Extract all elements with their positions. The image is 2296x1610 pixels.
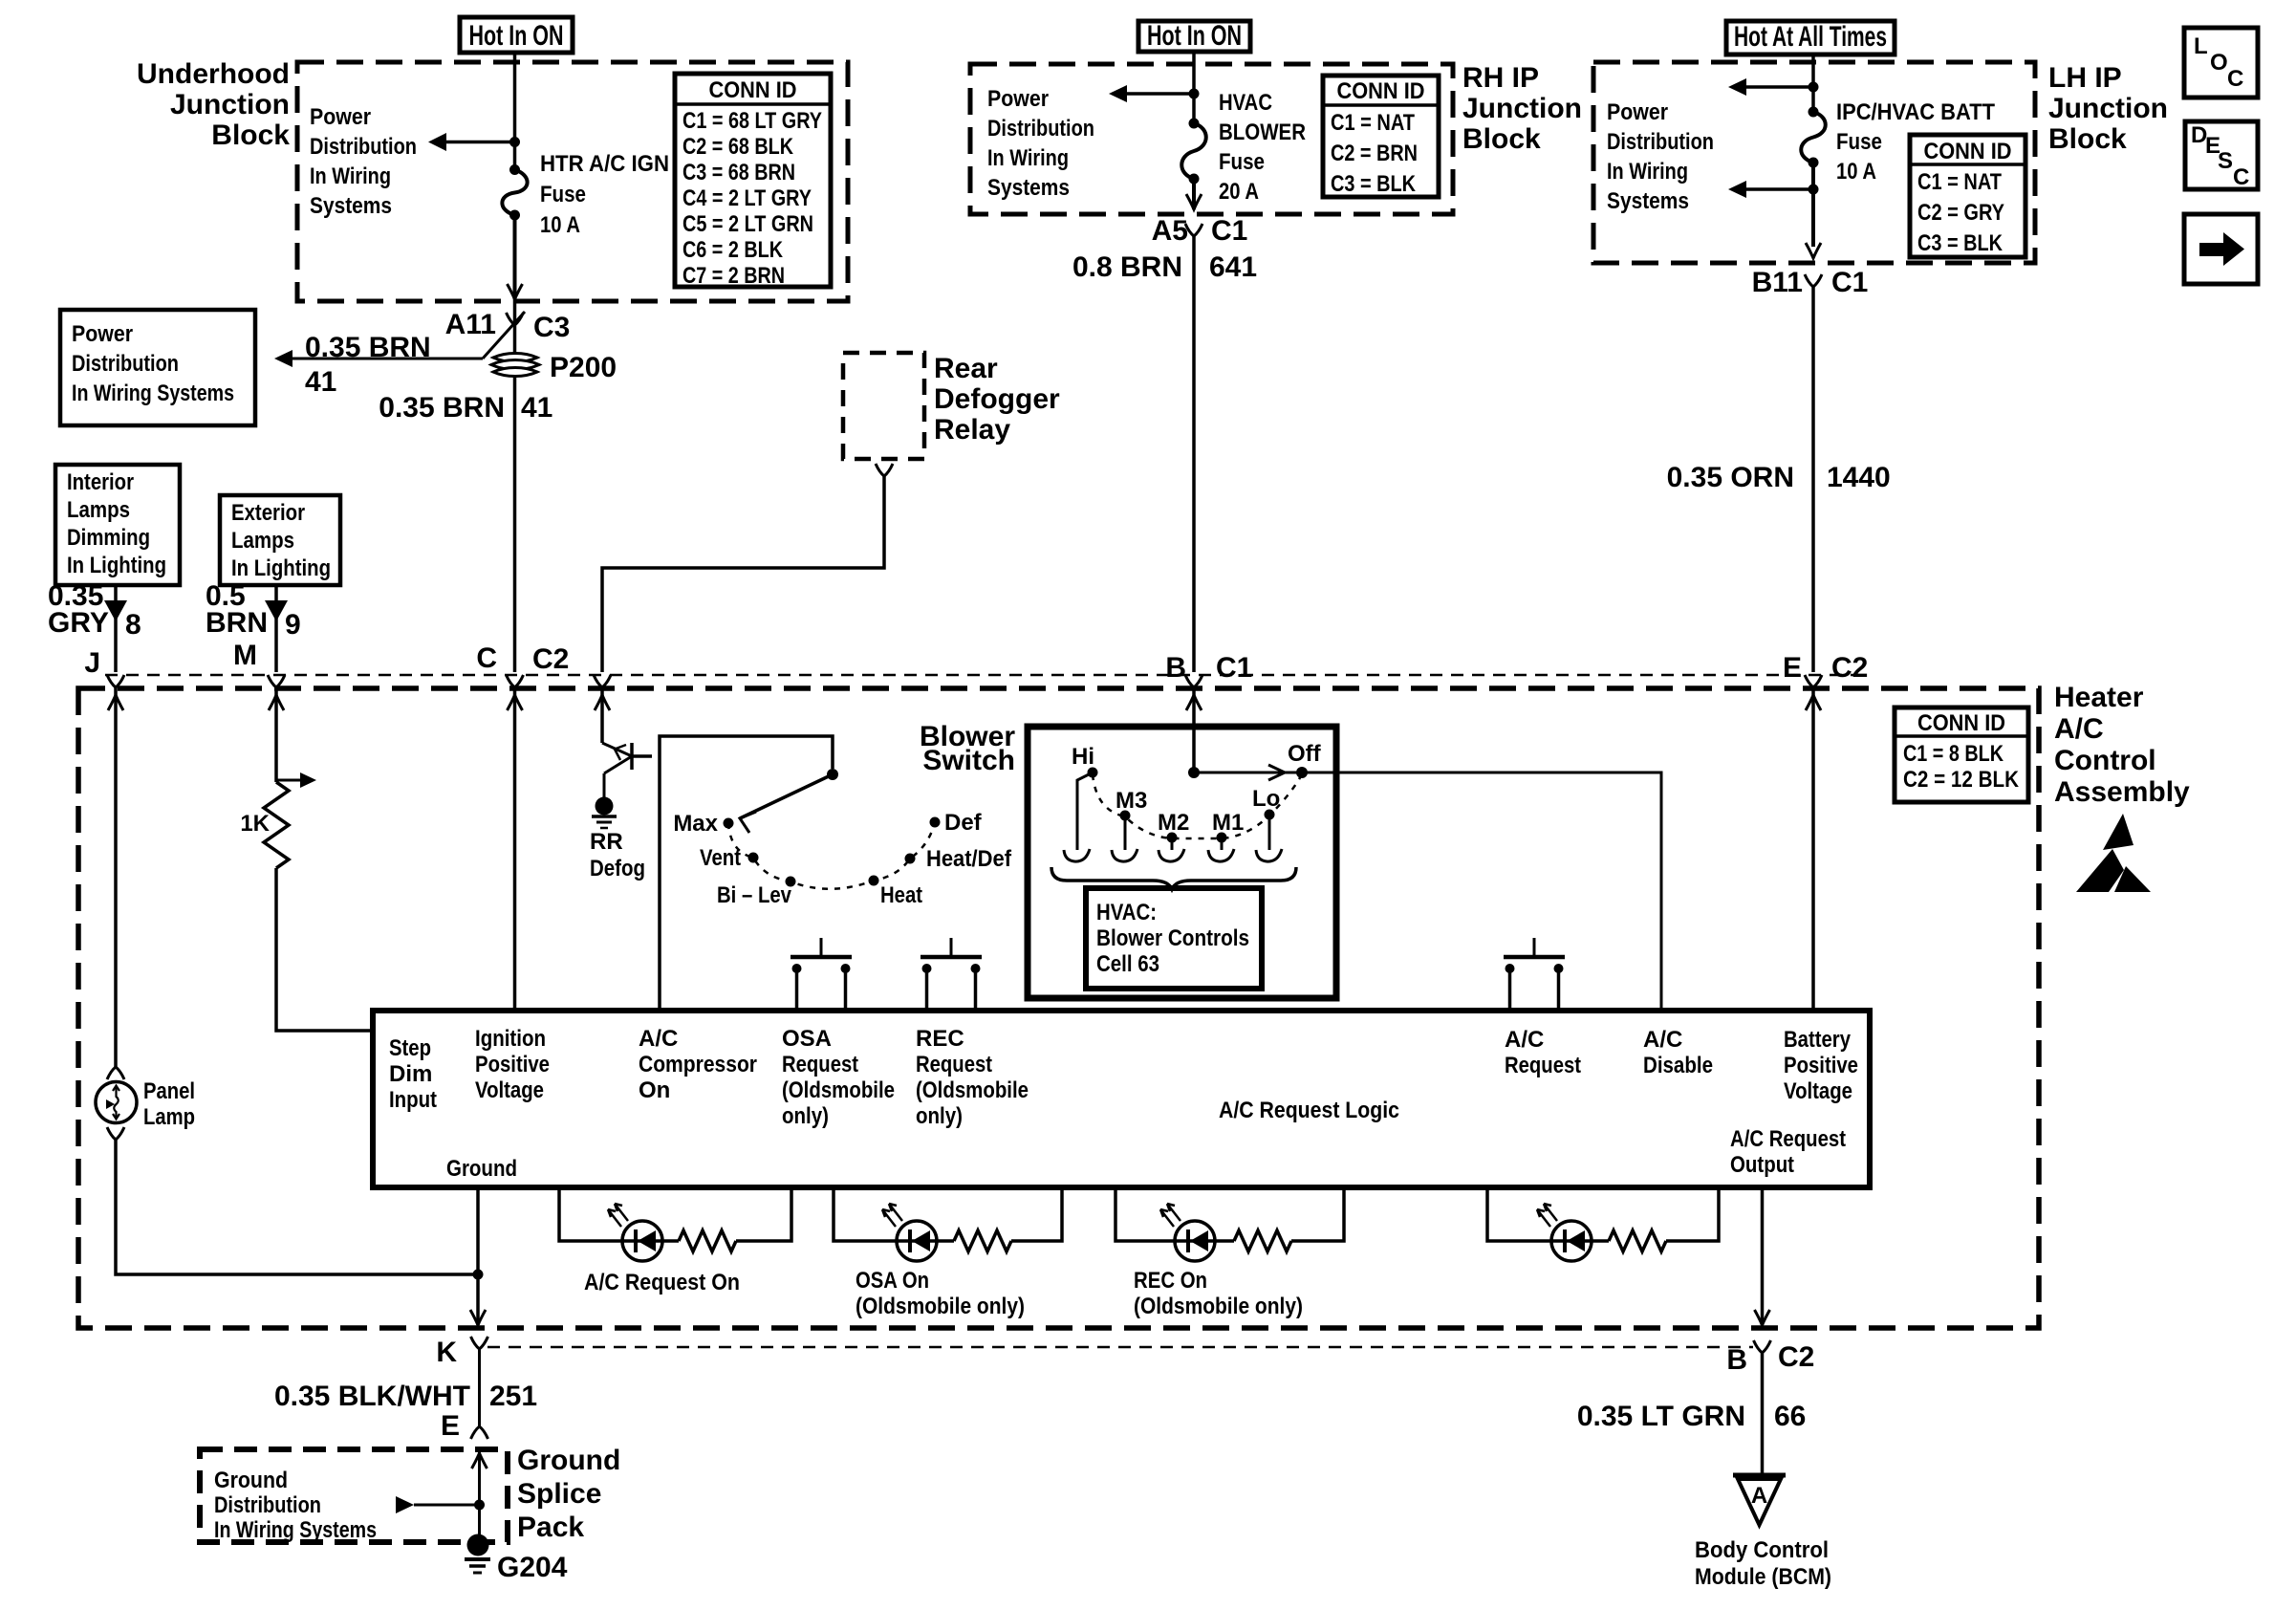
connector boundary thin dashed line (top) xyxy=(105,674,1854,677)
wire 0.35 BRN 41 branch to power distribution xyxy=(292,358,483,360)
svg-text:(Oldsmobile only): (Oldsmobile only) xyxy=(856,1294,1025,1319)
node: inline connector above panel lamp xyxy=(107,1067,124,1079)
svg-text:(Oldsmobile: (Oldsmobile xyxy=(916,1077,1029,1103)
node: inline connector below panel lamp xyxy=(107,1127,124,1140)
svg-text:C2 = GRY: C2 = GRY xyxy=(1917,200,2004,226)
wire through A11/C3 connector to P200 xyxy=(513,299,517,355)
wire C2 inside assembly with arrow (to RR Defog) xyxy=(600,687,604,743)
svg-text:1440: 1440 xyxy=(1827,462,1891,493)
CONN ID table (heater assembly) xyxy=(1895,707,2028,802)
svg-text:Off: Off xyxy=(1288,741,1322,767)
svg-text:Exterior: Exterior xyxy=(231,500,305,526)
svg-text:9: 9 xyxy=(285,609,301,641)
svg-text:On: On xyxy=(639,1077,670,1103)
label: Heater A/C Control Assembly xyxy=(2054,682,2190,808)
svg-text:C2: C2 xyxy=(1778,1341,1814,1373)
svg-text:Output: Output xyxy=(1730,1152,1794,1178)
svg-text:Heat/Def: Heat/Def xyxy=(926,846,1012,872)
svg-text:Distribution: Distribution xyxy=(72,351,179,377)
svg-text:Lamps: Lamps xyxy=(231,528,294,554)
pin label: A/C Disable xyxy=(1643,1027,1713,1078)
svg-text:Relay: Relay xyxy=(934,414,1010,446)
LH IP junction block dashed box xyxy=(1593,62,2035,263)
wire J: interior lamps down to assembly xyxy=(114,585,118,672)
label: Power Distribution In Wiring Systems (LH) xyxy=(1607,99,1714,214)
svg-text:S: S xyxy=(2218,148,2233,174)
node Hi contact xyxy=(1064,744,1098,861)
node A11/C3 inline connector xyxy=(445,309,571,359)
svg-text:Junction: Junction xyxy=(2048,93,2168,124)
svg-text:Def: Def xyxy=(944,810,983,836)
svg-text:Fuse: Fuse xyxy=(1836,129,1882,155)
power label box "Hot At All Times" xyxy=(1726,21,1895,54)
wire: relay to C2 pin xyxy=(602,476,884,672)
wire: Hot In ON down xyxy=(1192,52,1196,123)
wire: down to heater assembly B C1 xyxy=(1192,236,1196,672)
svg-text:Power: Power xyxy=(72,321,133,347)
wire: blower common to Off and onward to A/C disable xyxy=(1194,772,1661,1011)
svg-text:Positive: Positive xyxy=(1784,1053,1858,1078)
node: connector fork B/C2 xyxy=(1754,1340,1771,1353)
svg-text:Dimming: Dimming xyxy=(67,525,150,551)
pin label: A/C Request Output xyxy=(1730,1126,1846,1178)
svg-text:C2 = 12 BLK: C2 = 12 BLK xyxy=(1903,767,2020,793)
svg-text:Junction: Junction xyxy=(170,89,290,120)
svg-text:0.8 BRN: 0.8 BRN xyxy=(1072,251,1182,283)
node: connector fork E/C2 at boundary xyxy=(1805,675,1822,687)
exterior lamps box xyxy=(220,495,340,585)
wire J inside assembly with arrow xyxy=(114,687,118,1068)
svg-text:In Wiring: In Wiring xyxy=(987,145,1069,171)
svg-text:Defog: Defog xyxy=(590,856,645,881)
label: Power Distribution In Wiring Systems (underhood) xyxy=(310,104,417,219)
svg-text:0.35 BLK/WHT: 0.35 BLK/WHT xyxy=(274,1381,470,1412)
push button OSA request xyxy=(791,938,852,1011)
svg-text:Fuse: Fuse xyxy=(1219,149,1265,175)
svg-text:Voltage: Voltage xyxy=(1784,1078,1852,1104)
svg-text:Block: Block xyxy=(2048,123,2127,155)
svg-text:Compressor: Compressor xyxy=(639,1052,757,1077)
svg-text:K: K xyxy=(436,1337,457,1368)
svg-text:Underhood: Underhood xyxy=(137,58,290,90)
LED circuit OSA On xyxy=(834,1187,1062,1319)
svg-text:Request: Request xyxy=(916,1052,992,1077)
svg-text:Distribution: Distribution xyxy=(987,116,1094,141)
ESD sensitive device symbol xyxy=(2076,814,2151,892)
node: junction with panel lamp return xyxy=(473,1270,484,1280)
node: junction dot (top) xyxy=(1809,82,1819,93)
svg-text:66: 66 xyxy=(1774,1401,1806,1432)
wire: fuse to lower branch xyxy=(1811,163,1815,247)
underhood junction block dashed box xyxy=(297,62,848,301)
wire: Hot In ON down to fuse xyxy=(513,53,517,169)
power distribution box (solid) xyxy=(60,310,255,425)
svg-text:C3 = 68 BRN: C3 = 68 BRN xyxy=(682,160,795,185)
wire: ground pin down through assembly edge xyxy=(476,1187,480,1325)
node M3 contact xyxy=(1112,788,1147,861)
svg-text:C2 = 68 BLK: C2 = 68 BLK xyxy=(682,134,794,160)
svg-text:C1: C1 xyxy=(1831,267,1868,298)
ground splice pack dashed box xyxy=(200,1449,508,1542)
brace grouping blower contacts xyxy=(1051,867,1296,889)
svg-text:Ignition: Ignition xyxy=(475,1026,546,1052)
svg-text:C3 = BLK: C3 = BLK xyxy=(1331,171,1417,197)
svg-text:C1 = 8 BLK: C1 = 8 BLK xyxy=(1903,741,2004,767)
label: HVAC BLOWER Fuse 20 A xyxy=(1219,90,1306,205)
svg-text:Panel: Panel xyxy=(143,1078,195,1104)
node: connector fork J at boundary xyxy=(107,675,124,687)
label: Underhood Junction Block xyxy=(137,58,290,151)
svg-text:Block: Block xyxy=(1462,123,1541,155)
resistor 1K on wire M xyxy=(240,772,316,868)
label: Body Control Module (BCM) xyxy=(1695,1537,1831,1590)
svg-text:Splice: Splice xyxy=(517,1478,601,1510)
svg-text:Hot At All Times: Hot At All Times xyxy=(1734,21,1887,53)
svg-text:A/C Request On: A/C Request On xyxy=(584,1270,740,1295)
svg-text:In Lighting: In Lighting xyxy=(67,553,166,578)
node A5/C1 connector xyxy=(1152,215,1248,247)
svg-text:BRN: BRN xyxy=(206,607,268,639)
wire: panel lamp down and right to ground trace xyxy=(116,1140,478,1274)
svg-text:only): only) xyxy=(916,1103,963,1129)
svg-text:Power: Power xyxy=(310,104,371,130)
label: Power Distribution In Wiring Systems (RH) xyxy=(987,86,1094,201)
label: RH IP Junction Block xyxy=(1462,62,1582,155)
svg-text:J: J xyxy=(84,647,100,679)
svg-text:Module (BCM): Module (BCM) xyxy=(1695,1564,1831,1590)
svg-text:C1: C1 xyxy=(1211,215,1247,247)
wire: splice vertical with up arrow xyxy=(478,1449,481,1541)
svg-text:10 A: 10 A xyxy=(1836,159,1876,185)
svg-text:HTR A/C IGN: HTR A/C IGN xyxy=(540,151,669,177)
svg-text:Hot In ON: Hot In ON xyxy=(469,20,564,52)
node Off contact xyxy=(1288,741,1322,778)
label: IPC/HVAC BATT Fuse 10 A xyxy=(1836,99,1995,185)
wire E C2 inside assembly with arrow (to battery positive voltage) xyxy=(1811,687,1815,1011)
HVAC blower controls reference box xyxy=(1086,888,1262,989)
pin label: Step Dim Input xyxy=(389,1035,437,1113)
svg-text:Lamp: Lamp xyxy=(143,1104,195,1130)
wire: down to BCM triangle xyxy=(1761,1353,1765,1473)
pin label: Ignition Positive Voltage xyxy=(475,1026,550,1103)
svg-text:1K: 1K xyxy=(240,811,270,837)
off-page connector A (BCM) xyxy=(1733,1475,1786,1525)
svg-text:Defogger: Defogger xyxy=(934,383,1060,415)
svg-text:C2 = BRN: C2 = BRN xyxy=(1331,141,1418,166)
panel lamp xyxy=(96,1078,195,1130)
wire: fuse down to box edge with arrow xyxy=(513,215,517,299)
svg-text:M3: M3 xyxy=(1116,788,1147,814)
svg-text:RR: RR xyxy=(590,829,623,855)
svg-text:A/C: A/C xyxy=(639,1026,678,1052)
label: Rear Defogger Relay xyxy=(934,353,1060,446)
svg-text:O: O xyxy=(2210,50,2228,76)
wire: Hot At All Times down xyxy=(1811,54,1815,112)
svg-text:Distribution: Distribution xyxy=(310,134,417,160)
fuse IPC/HVAC BATT 10A xyxy=(1801,107,1826,168)
mode switch contacts and dashed arc xyxy=(724,817,941,889)
LED circuit A/C Request On xyxy=(559,1187,791,1295)
svg-text:Rear: Rear xyxy=(934,353,998,384)
svg-text:Junction: Junction xyxy=(1462,93,1582,124)
svg-text:41: 41 xyxy=(521,392,552,424)
svg-text:M: M xyxy=(233,640,257,671)
svg-text:C5 = 2 LT GRN: C5 = 2 LT GRN xyxy=(682,211,813,237)
svg-text:A/C Request Logic: A/C Request Logic xyxy=(1219,1098,1399,1123)
splice P200 xyxy=(491,352,617,383)
heater a/c control assembly dashed box xyxy=(78,688,2039,1328)
node B11/C1 connector xyxy=(1752,267,1869,298)
svg-text:Hi: Hi xyxy=(1072,744,1094,770)
svg-text:REC: REC xyxy=(916,1026,964,1052)
svg-text:BLOWER: BLOWER xyxy=(1219,120,1306,145)
rotary mode switch blade arrow to Max xyxy=(740,774,833,833)
svg-text:Body Control: Body Control xyxy=(1695,1537,1829,1563)
svg-text:C2: C2 xyxy=(1831,652,1868,684)
wire: P200 down to C connector xyxy=(513,377,517,672)
LOC legend box xyxy=(2184,28,2258,98)
svg-text:Dim: Dim xyxy=(389,1061,432,1087)
svg-text:Fuse: Fuse xyxy=(540,182,586,207)
transistor-style switch RR Defog xyxy=(602,743,652,798)
svg-text:Input: Input xyxy=(389,1087,437,1113)
wire M inside assembly with arrow xyxy=(274,687,278,782)
svg-text:B: B xyxy=(1726,1344,1747,1376)
push button REC request xyxy=(921,938,982,1011)
svg-text:C1 = NAT: C1 = NAT xyxy=(1917,169,2002,195)
fuse HVAC BLOWER 20A xyxy=(1181,119,1206,185)
DESC legend box xyxy=(2185,121,2258,190)
svg-text:B11: B11 xyxy=(1752,267,1803,298)
svg-text:10 A: 10 A xyxy=(540,212,580,238)
svg-text:0.35 BRN: 0.35 BRN xyxy=(305,332,431,363)
CONN ID table (RH) xyxy=(1323,76,1439,197)
power label box "Hot In ON" (left) xyxy=(460,17,573,53)
svg-text:(Oldsmobile only): (Oldsmobile only) xyxy=(1134,1294,1303,1319)
svg-text:RH IP: RH IP xyxy=(1462,62,1539,94)
svg-text:G204: G204 xyxy=(497,1552,568,1583)
blower switch common node xyxy=(1188,767,1200,778)
svg-text:L: L xyxy=(2194,33,2208,59)
svg-text:Max: Max xyxy=(673,811,718,837)
LED circuit REC On xyxy=(1116,1187,1344,1319)
CONN ID table (LH) xyxy=(1910,135,2025,257)
wire: fuse down through box edge xyxy=(1192,179,1196,209)
ground at RR Defog xyxy=(590,797,645,882)
power label box "Hot In ON" (middle) xyxy=(1138,20,1250,52)
svg-text:E: E xyxy=(1783,652,1802,684)
wire: A/C compressor on pin up to mode switch pivot xyxy=(660,736,833,1011)
pin label: A/C Request xyxy=(1505,1027,1581,1078)
label: Ground Splice Pack xyxy=(517,1445,620,1543)
svg-text:Lamps: Lamps xyxy=(67,497,130,523)
svg-text:Pack: Pack xyxy=(517,1512,584,1543)
svg-text:C3 = BLK: C3 = BLK xyxy=(1917,230,2004,256)
svg-text:Positive: Positive xyxy=(475,1052,550,1077)
svg-text:In Wiring: In Wiring xyxy=(1607,159,1688,185)
svg-text:OSA: OSA xyxy=(782,1026,832,1052)
connector boundary thin dashed line (bottom) xyxy=(487,1346,1753,1349)
svg-text:Interior: Interior xyxy=(67,469,134,495)
svg-text:HVAC: HVAC xyxy=(1219,90,1272,116)
push button A/C request xyxy=(1504,938,1565,1011)
label: Ground Distribution In Wiring Systems xyxy=(214,1468,377,1543)
svg-text:Ground: Ground xyxy=(517,1445,620,1476)
svg-text:A/C Request: A/C Request xyxy=(1730,1126,1846,1152)
svg-text:CONN ID: CONN ID xyxy=(709,77,797,103)
svg-text:Cell 63: Cell 63 xyxy=(1096,951,1159,977)
wire: output pin down through assembly edge xyxy=(1761,1187,1765,1325)
wire: arrow down at box edge xyxy=(1806,243,1821,258)
svg-text:only): only) xyxy=(782,1103,829,1129)
svg-text:P200: P200 xyxy=(550,352,617,383)
svg-text:Request: Request xyxy=(1505,1053,1581,1078)
svg-text:CONN ID: CONN ID xyxy=(1337,78,1425,104)
module box (A/C request logic) xyxy=(373,1011,1870,1187)
svg-text:C: C xyxy=(2227,66,2243,92)
svg-text:Block: Block xyxy=(211,120,290,151)
svg-text:251: 251 xyxy=(489,1381,537,1412)
svg-text:Switch: Switch xyxy=(922,745,1015,776)
wire: branch arrow in splice pack xyxy=(414,1504,480,1507)
wire M: exterior lamps down to assembly xyxy=(274,585,278,672)
svg-text:B: B xyxy=(1165,652,1186,684)
svg-text:C4 = 2 LT GRY: C4 = 2 LT GRY xyxy=(682,185,812,211)
node M2 contact xyxy=(1158,810,1189,861)
svg-text:C6 = 2 BLK: C6 = 2 BLK xyxy=(682,237,784,263)
svg-text:E: E xyxy=(441,1410,460,1442)
svg-text:C: C xyxy=(476,642,497,674)
svg-text:Hot In ON: Hot In ON xyxy=(1147,20,1242,52)
node: junction dot (bottom) xyxy=(1809,185,1819,195)
svg-text:C2: C2 xyxy=(532,643,569,675)
wire: branch arrow left xyxy=(1126,92,1194,96)
svg-text:In Lighting: In Lighting xyxy=(231,555,331,581)
node M1 contact xyxy=(1208,810,1244,861)
svg-text:C1 = 68 LT GRY: C1 = 68 LT GRY xyxy=(682,108,822,134)
svg-text:8: 8 xyxy=(125,609,141,641)
svg-text:Power: Power xyxy=(987,86,1049,112)
svg-text:Distribution: Distribution xyxy=(1607,129,1714,155)
rear defogger relay dashed box xyxy=(843,353,924,459)
pin label: OSA Request (Oldsmobile only) xyxy=(782,1026,895,1129)
pin label: A/C Compressor On xyxy=(639,1026,757,1103)
pin label: REC Request (Oldsmobile only) xyxy=(916,1026,1029,1129)
svg-text:Heat: Heat xyxy=(880,882,922,908)
svg-text:HVAC:: HVAC: xyxy=(1096,900,1157,925)
svg-text:0.35 LT GRN: 0.35 LT GRN xyxy=(1577,1401,1745,1432)
svg-text:Systems: Systems xyxy=(987,175,1070,201)
node: splice junction dot xyxy=(474,1500,485,1511)
ground G204 xyxy=(465,1534,568,1584)
svg-text:Step: Step xyxy=(389,1035,431,1061)
svg-text:REC On: REC On xyxy=(1134,1268,1207,1294)
svg-text:In Wiring: In Wiring xyxy=(310,163,391,189)
wire C inside assembly with arrow (to Ignition Positive Voltage) xyxy=(513,687,517,1011)
svg-text:41: 41 xyxy=(305,366,336,398)
blower switch wiper arrow toward Off xyxy=(1268,765,1285,780)
node: connector fork M at boundary xyxy=(268,675,285,687)
CONN ID table (underhood) xyxy=(675,74,831,289)
svg-text:Request: Request xyxy=(782,1052,858,1077)
wire: K to ground splice pack xyxy=(478,1349,481,1426)
svg-text:Battery: Battery xyxy=(1784,1027,1852,1053)
svg-text:C: C xyxy=(2233,164,2249,190)
svg-text:C1 = NAT: C1 = NAT xyxy=(1331,110,1415,136)
wire: branch to power distribution with arrow xyxy=(445,141,515,144)
svg-text:641: 641 xyxy=(1209,251,1257,283)
arrow legend box xyxy=(2184,214,2258,284)
LED circuit A/C request (unlabeled) xyxy=(1487,1187,1719,1261)
wire: branch arrow left (top) xyxy=(1745,85,1813,89)
svg-text:CONN ID: CONN ID xyxy=(1924,139,2012,164)
svg-text:C1: C1 xyxy=(1216,652,1252,684)
RH IP junction block dashed box xyxy=(970,64,1453,214)
svg-text:A/C: A/C xyxy=(1643,1027,1682,1053)
node: connector fork B/C1 at boundary xyxy=(1185,675,1202,687)
fuse HTR A/C IGN 10A xyxy=(502,164,527,221)
svg-text:20 A: 20 A xyxy=(1219,179,1259,205)
svg-text:M1: M1 xyxy=(1212,810,1244,836)
label: HTR A/C IGN Fuse 10 A xyxy=(540,151,669,238)
svg-text:C3: C3 xyxy=(533,312,570,343)
svg-text:IPC/HVAC BATT: IPC/HVAC BATT xyxy=(1836,99,1995,125)
svg-text:Disable: Disable xyxy=(1643,1053,1713,1078)
node Lo contact xyxy=(1252,786,1282,861)
svg-text:A/C: A/C xyxy=(2054,713,2104,745)
node: connector fork C2 at boundary xyxy=(594,675,611,687)
svg-text:Systems: Systems xyxy=(1607,188,1689,214)
svg-text:0.35 BRN: 0.35 BRN xyxy=(379,392,505,424)
node: relay connector fork xyxy=(876,464,893,476)
svg-text:Ground: Ground xyxy=(214,1468,288,1493)
svg-text:Control: Control xyxy=(2054,745,2156,776)
svg-text:In Wiring Systems: In Wiring Systems xyxy=(72,381,234,406)
node: connector fork C at boundary xyxy=(507,675,524,687)
svg-text:Systems: Systems xyxy=(310,193,392,219)
svg-text:Voltage: Voltage xyxy=(475,1077,544,1103)
svg-text:Ground: Ground xyxy=(446,1156,517,1182)
svg-text:GRY: GRY xyxy=(48,607,109,639)
label: LH IP Junction Block xyxy=(2048,62,2168,155)
wire: down to heater assembly E C2 xyxy=(1811,287,1815,672)
pin label: Battery Positive Voltage xyxy=(1784,1027,1858,1104)
svg-text:0.35 ORN: 0.35 ORN xyxy=(1667,462,1794,493)
svg-text:Bi – Lev: Bi – Lev xyxy=(717,882,792,908)
wire B C1 inside assembly with arrow (to blower switch) xyxy=(1192,687,1196,771)
svg-text:LH IP: LH IP xyxy=(2048,62,2122,94)
blower switch dashed arc xyxy=(1093,774,1302,838)
interior lamps box xyxy=(55,465,180,585)
svg-text:In Wiring Systems: In Wiring Systems xyxy=(214,1517,377,1543)
svg-text:(Oldsmobile: (Oldsmobile xyxy=(782,1077,895,1103)
svg-text:CONN ID: CONN ID xyxy=(1917,710,2005,736)
node: junction dot xyxy=(1189,89,1200,99)
blower switch box xyxy=(1028,727,1336,998)
svg-text:Distribution: Distribution xyxy=(214,1492,321,1518)
svg-text:Heater: Heater xyxy=(2054,682,2144,713)
wire: 1K resistor to step dim input xyxy=(276,868,373,1031)
svg-text:A: A xyxy=(1751,1483,1767,1509)
svg-text:M2: M2 xyxy=(1158,810,1189,836)
rotary mode switch pivot xyxy=(827,769,838,780)
svg-text:Power: Power xyxy=(1607,99,1668,125)
svg-text:A11: A11 xyxy=(445,309,496,340)
svg-text:Blower Controls: Blower Controls xyxy=(1096,925,1249,951)
svg-text:Vent: Vent xyxy=(700,845,741,871)
svg-text:A5: A5 xyxy=(1152,215,1188,247)
node: junction dot at branch xyxy=(509,137,520,147)
